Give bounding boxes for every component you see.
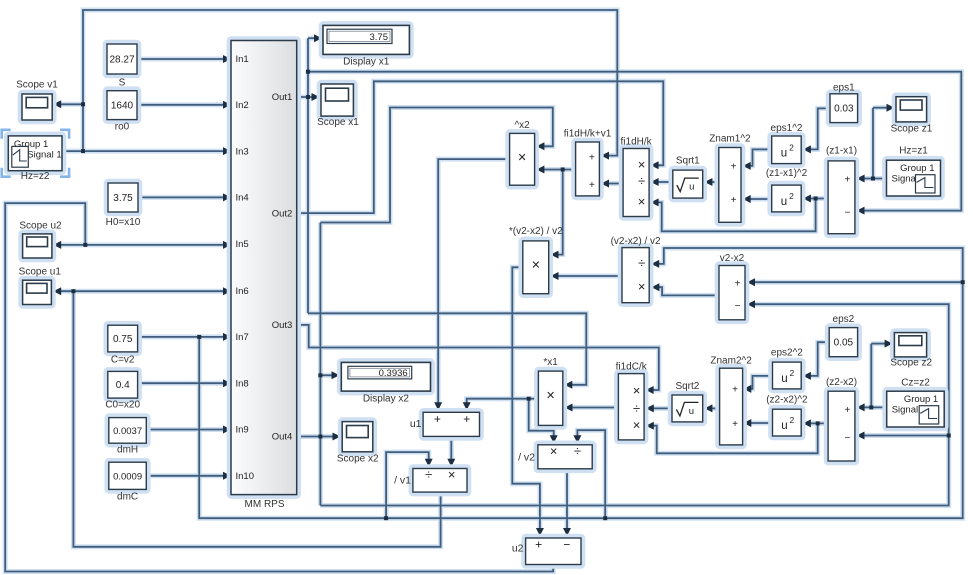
- product fi1dC/k: [616, 371, 646, 442]
- svg-text:0.0009: 0.0009: [113, 471, 142, 482]
- sqrt Sqrt2: [670, 393, 705, 424]
- svg-text:Signal 1: Signal 1: [27, 149, 61, 160]
- wire Sqrt1 out: [657, 181, 673, 183]
- svg-text:/ v1: / v1: [394, 475, 411, 487]
- wire z1-x1 sq out: [749, 198, 772, 200]
- svg-text:+: +: [844, 175, 850, 186]
- wire Sqrt2 out: [652, 407, 672, 409]
- svg-text:Scope z2: Scope z2: [890, 358, 932, 369]
- sum Znam1^2: [717, 145, 744, 224]
- product-div /v1: [411, 466, 470, 494]
- svg-text:0.3936: 0.3936: [379, 368, 408, 379]
- wire z2b to sum: [864, 406, 887, 408]
- constant S=28.27: [105, 42, 139, 76]
- wire pvv out: [512, 267, 540, 530]
- svg-text:×: ×: [448, 467, 456, 482]
- scope Scope x2: [340, 419, 375, 454]
- wire dmC to In10: [146, 475, 224, 477]
- svg-text:In2: In2: [236, 100, 249, 111]
- svg-text:Hz=z1: Hz=z1: [899, 146, 928, 157]
- svg-text:Scope x1: Scope x1: [317, 117, 359, 128]
- wire x2 to Display x2: [320, 374, 333, 376]
- svg-text:fi1dH/k: fi1dH/k: [621, 136, 653, 147]
- svg-text:+: +: [535, 538, 542, 552]
- wire x1 to Display x1: [308, 37, 316, 39]
- wire eps1sq out: [749, 149, 772, 166]
- svg-text:Scope z1: Scope z1: [891, 124, 933, 135]
- svg-text:u: u: [781, 373, 787, 385]
- svg-text:Znam2^2: Znam2^2: [710, 356, 752, 367]
- svg-text:(z2-x2)^2: (z2-x2)^2: [766, 395, 808, 406]
- svg-text:/ v2: / v2: [518, 451, 535, 463]
- svg-text:2: 2: [789, 191, 794, 201]
- wire C to In7: [138, 336, 224, 338]
- sum u1: [421, 410, 482, 439]
- svg-text:2: 2: [789, 142, 794, 152]
- svg-text:Hz=z2: Hz=z2: [21, 171, 50, 182]
- product (v2-x2)/v2: [620, 245, 652, 305]
- sum (z1-x1): [826, 159, 857, 236]
- sum v2-x2: [717, 263, 747, 322]
- wire H0 to In4: [138, 196, 224, 198]
- svg-text:C0=x20: C0=x20: [105, 400, 140, 411]
- svg-text:In7: In7: [236, 332, 249, 343]
- wire v2 to v2-x2 plus: [754, 281, 963, 283]
- svg-text:+: +: [731, 195, 737, 206]
- svg-text:fi1dC/k: fi1dC/k: [616, 361, 648, 372]
- svg-text:÷: ÷: [425, 467, 432, 482]
- constant C0=0.4: [106, 369, 140, 400]
- math (z1-x1)^2: [770, 183, 804, 214]
- wire Znam1 out: [711, 181, 719, 183]
- wire z1 scope h: [873, 107, 888, 109]
- svg-text:*(v2-x2) / v2: *(v2-x2) / v2: [509, 226, 563, 237]
- svg-text:1640: 1640: [111, 101, 134, 112]
- wire vv out: [557, 275, 622, 277]
- wire z1-x1 feedback: [657, 199, 816, 232]
- wire C0 to In8: [138, 382, 224, 384]
- wire x2 bottom bus: [320, 304, 948, 505]
- svg-text:(z1-x1): (z1-x1): [826, 145, 857, 156]
- svg-text:ro0: ro0: [115, 122, 130, 133]
- constant eps2=0.05: [827, 325, 860, 359]
- svg-text:u: u: [781, 196, 787, 208]
- wire u1 out: [450, 436, 452, 460]
- svg-text:÷: ÷: [633, 401, 640, 416]
- svg-text:Scope x2: Scope x2: [337, 454, 379, 465]
- wire z1 to sum: [864, 178, 887, 180]
- svg-text:+: +: [732, 419, 738, 430]
- svg-text:In5: In5: [236, 239, 249, 250]
- wire x2 vertical: [319, 223, 321, 506]
- svg-text:(v2-x2) / v2: (v2-x2) / v2: [611, 236, 661, 247]
- wire fi1dCk out: [571, 407, 618, 409]
- wire S to In1: [137, 58, 224, 60]
- svg-text:−: −: [844, 433, 850, 444]
- wire pow x2 out: [438, 159, 509, 404]
- svg-text:fi1dH/k+v1: fi1dH/k+v1: [564, 129, 612, 140]
- wire x2 to pow x2: [320, 108, 552, 223]
- display Display x1: [321, 23, 412, 56]
- wire x2 to z2-x2 minus: [864, 435, 949, 437]
- svg-text:eps2^2: eps2^2: [771, 347, 803, 358]
- constant ro0=1640: [105, 89, 139, 122]
- svg-text:0.05: 0.05: [834, 338, 854, 349]
- svg-text:−: −: [735, 301, 741, 312]
- svg-text:×: ×: [633, 417, 641, 432]
- svg-text:u: u: [781, 420, 787, 432]
- wire u1 to In6: [60, 290, 224, 292]
- svg-text:In6: In6: [236, 286, 249, 297]
- wire v2 bus: [199, 248, 963, 518]
- svg-text:Group 1: Group 1: [900, 163, 934, 174]
- wire eps1: [810, 108, 830, 149]
- svg-text:÷: ÷: [638, 256, 645, 271]
- sum (z2-x2): [826, 389, 857, 463]
- svg-text:×: ×: [638, 194, 646, 209]
- svg-text:In3: In3: [236, 146, 249, 157]
- wire v2-x2 out: [658, 287, 721, 295]
- constant dmH=0.0037: [107, 415, 149, 445]
- svg-text:+: +: [844, 405, 850, 416]
- svg-text:×: ×: [518, 150, 526, 166]
- wire z2-x2 sq out: [750, 422, 773, 424]
- svg-text:−: −: [844, 208, 850, 219]
- wire Znam2 out: [711, 407, 720, 409]
- wire ro0 to In2: [137, 104, 224, 106]
- wire arrowheads: [53, 34, 894, 536]
- svg-text:2: 2: [790, 415, 795, 425]
- svg-text:u: u: [689, 406, 694, 417]
- svg-text:Cz=z2: Cz=z2: [901, 377, 930, 388]
- product fi1dH/k: [621, 146, 651, 218]
- svg-text:0.75: 0.75: [113, 334, 133, 345]
- svg-text:3.75: 3.75: [113, 193, 133, 204]
- svg-text:C=v2: C=v2: [111, 354, 135, 365]
- svg-text:^x2: ^x2: [514, 120, 530, 131]
- svg-text:Out2: Out2: [272, 208, 293, 219]
- math (z2-x2)^2: [770, 407, 803, 438]
- svg-text:Out4: Out4: [272, 432, 293, 443]
- wire v1 down: [557, 170, 563, 255]
- svg-text:+: +: [732, 385, 738, 396]
- wire Out2 loop: [297, 81, 664, 213]
- scope Scope z2: [892, 330, 929, 359]
- svg-text:u: u: [781, 147, 787, 159]
- wire prodx1 to divv2: [529, 399, 554, 437]
- svg-text:0.03: 0.03: [834, 104, 854, 115]
- svg-text:÷: ÷: [574, 443, 581, 458]
- math eps1^2: [770, 134, 804, 166]
- svg-text:(z2-x2): (z2-x2): [826, 377, 857, 388]
- wire prodx1 out: [467, 399, 539, 404]
- svg-text:Display x2: Display x2: [363, 393, 410, 404]
- svg-text:Out1: Out1: [272, 92, 293, 103]
- wire Out1 to Scope x1: [297, 96, 313, 98]
- scope Scope z1: [894, 95, 929, 125]
- svg-text:×: ×: [550, 443, 558, 458]
- wire eps2: [810, 342, 829, 376]
- wire u2 loop: [5, 203, 553, 571]
- scope Scope u1: [20, 278, 53, 307]
- wire x1 top bus: [308, 72, 961, 211]
- svg-text:+: +: [731, 162, 737, 173]
- svg-text:+: +: [434, 412, 441, 426]
- svg-text:+: +: [463, 412, 470, 426]
- wire dmH to In9: [146, 429, 224, 431]
- wire Out4 to Scope x2: [297, 436, 333, 438]
- svg-text:+: +: [589, 153, 595, 164]
- subsystem MM RPS: [229, 38, 299, 497]
- signal-builder Cz=z2: [885, 389, 947, 429]
- wire z2 to In3: [62, 150, 224, 152]
- svg-text:H0=x10: H0=x10: [106, 217, 141, 228]
- product-div /v2: [536, 443, 595, 471]
- svg-text:×: ×: [633, 383, 641, 398]
- svg-text:Znam1^2: Znam1^2: [709, 134, 751, 145]
- svg-text:In8: In8: [236, 378, 249, 389]
- svg-text:Sqrt2: Sqrt2: [675, 381, 699, 392]
- svg-text:28.27: 28.27: [109, 55, 134, 66]
- constant eps1=0.03: [828, 92, 860, 125]
- display Display x2: [339, 360, 433, 393]
- product *(v2-x2)/v2: [521, 239, 551, 296]
- svg-text:Scope u1: Scope u1: [19, 267, 62, 278]
- wire z2 to Scope v1: [60, 103, 83, 105]
- wire v2 to div v2: [577, 430, 605, 518]
- signal-builder Hz=z1: [884, 158, 942, 198]
- wire z2-x2 out: [810, 422, 828, 424]
- wire x1 to prod x1: [308, 313, 586, 385]
- svg-text:eps1: eps1: [833, 83, 855, 94]
- constant H0=3.75: [106, 181, 140, 214]
- wire junction dots: [71, 70, 964, 521]
- svg-text:u2: u2: [512, 543, 524, 555]
- wire x1 vertical: [307, 38, 309, 313]
- wire u1 loop: [73, 291, 440, 547]
- constant C=0.75: [106, 323, 140, 354]
- wire z2b vertical: [870, 344, 872, 408]
- wire z1-x1 out: [810, 198, 828, 200]
- svg-text:Group 1: Group 1: [904, 394, 938, 405]
- svg-text:v2-x2: v2-x2: [720, 253, 745, 264]
- product ^x2: [507, 131, 536, 187]
- svg-text:×: ×: [638, 279, 646, 294]
- svg-text:×: ×: [532, 258, 540, 274]
- svg-text:2: 2: [790, 368, 795, 378]
- wire divv2 out: [566, 469, 568, 530]
- svg-text:÷: ÷: [638, 174, 645, 189]
- sqrt Sqrt1: [671, 168, 705, 200]
- svg-text:u1: u1: [410, 418, 422, 430]
- scope Scope x1: [319, 82, 356, 119]
- svg-text:Scope u2: Scope u2: [19, 220, 62, 231]
- wire Out3 loop: [297, 325, 659, 390]
- svg-text:×: ×: [638, 157, 646, 172]
- constant dmC=0.0009: [107, 460, 149, 492]
- wire z2 up-left: [83, 10, 617, 156]
- wire fi1dHk out: [608, 183, 623, 185]
- svg-text:0.4: 0.4: [116, 380, 130, 391]
- signal-builder Hz=z2: [6, 134, 64, 173]
- svg-text:*x1: *x1: [543, 357, 558, 368]
- sum Znam2^2: [717, 366, 744, 447]
- svg-text:+: +: [589, 180, 595, 191]
- svg-text:eps1^2: eps1^2: [771, 123, 803, 134]
- wire z2b scope h: [871, 343, 886, 345]
- wire z1 to Scope z1: [872, 108, 874, 179]
- svg-text:In4: In4: [236, 193, 249, 204]
- scope Scope v1: [20, 92, 55, 122]
- svg-text:In9: In9: [236, 425, 249, 436]
- svg-text:eps2: eps2: [833, 314, 855, 325]
- svg-text:dmC: dmC: [117, 492, 138, 503]
- svg-text:+: +: [735, 279, 741, 290]
- sum u2: [523, 536, 583, 567]
- wire v2 to div v1: [386, 452, 429, 518]
- svg-text:u: u: [689, 182, 694, 193]
- scope Scope u2: [20, 232, 54, 261]
- svg-text:MM RPS: MM RPS: [245, 499, 285, 510]
- svg-text:0.0037: 0.0037: [113, 426, 142, 437]
- wire z2-x2 feedback: [652, 423, 818, 453]
- svg-text:Sqrt1: Sqrt1: [676, 156, 700, 167]
- svg-text:dmH: dmH: [117, 445, 138, 456]
- math eps2^2: [770, 360, 803, 391]
- svg-text:Out3: Out3: [272, 320, 293, 331]
- svg-text:Display x1: Display x1: [343, 56, 390, 67]
- svg-text:Scope v1: Scope v1: [16, 80, 58, 91]
- svg-text:In10: In10: [236, 471, 255, 482]
- svg-text:(z1-x1)^2: (z1-x1)^2: [766, 168, 808, 179]
- wire v1 new: [543, 169, 576, 171]
- wire eps2sq out: [750, 376, 773, 389]
- svg-text:3.75: 3.75: [370, 32, 389, 43]
- product *x1: [536, 369, 565, 428]
- svg-text:In1: In1: [236, 54, 249, 65]
- sum fi1dH/k+v1: [573, 140, 601, 198]
- svg-text:−: −: [563, 538, 570, 552]
- wire u2 to In5: [60, 244, 224, 246]
- svg-text:×: ×: [546, 388, 554, 404]
